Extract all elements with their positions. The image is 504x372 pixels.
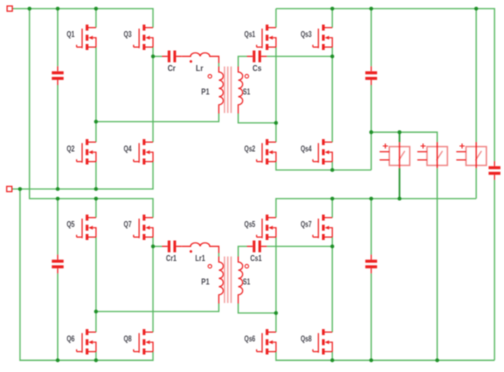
junction (20,189) (18, 187, 22, 191)
wire: Qs1 source to Qs2 drain (275, 47, 277, 142)
wire: leg A x=96 Q2 source to bottom rail (95, 162, 97, 189)
wire: module B1 upper lead (399, 132, 401, 142)
junction (153,246.4) (151, 245, 155, 249)
transistor Q6 (67, 329, 96, 354)
wire: Qs7 leg top (331, 199, 333, 218)
wire: top primary rail from J1 to Q3 drain (12, 9, 153, 28)
wire: S1 bottom to Qs1 leg mid (238, 114, 276, 123)
junction (332.3,360.3) (330, 358, 334, 362)
wire: module B1 lower lead (399, 168, 401, 199)
capacitor C1 input filter top (52, 66, 64, 85)
svg-text:Qs2: Qs2 (244, 143, 255, 153)
transistor Qs3 (301, 25, 333, 50)
junction (371.2,132.2) (369, 130, 373, 134)
capacitor Cs (247, 51, 267, 74)
wire: Qs3 source to Qs4 drain (331, 47, 333, 142)
junction (399.5,132.2) (398, 130, 402, 134)
wire: leg A bottom x=96 rail to Q5 drain (95, 199, 97, 218)
junction (332.3,198.6) (330, 197, 334, 201)
transistor Qs1 (244, 25, 276, 50)
svg-text:Cs1: Cs1 (250, 253, 262, 263)
wire: Lr1 to P1 top (218, 253, 220, 257)
svg-text:Q7: Q7 (124, 219, 132, 229)
wire: far right bus below cap (494, 180, 496, 360)
wire: leg A x=96 top to Q1 drain (95, 9, 97, 28)
junction (371.2,198.6) (369, 197, 373, 201)
wire: Lr to P1 top (218, 63, 220, 67)
wire: lower input cap branch (x=57.7) (57, 199, 59, 361)
junction (437.2,360.3) (435, 358, 439, 362)
transistor Qs6 (244, 329, 276, 354)
capacitor C2 output filter top (365, 66, 377, 85)
wire: Qs8 source to bottom rail (331, 352, 333, 361)
wire: secondary lower rail y=198.6 (276, 199, 476, 218)
capacitor Cr (162, 51, 182, 74)
capacitor C4 output filter bottom (365, 255, 377, 274)
wire: module B2 lead down to bottom rail (436, 168, 438, 360)
transformer T1 primary winding P1 (201, 67, 223, 114)
wire: S1 top to Cs (238, 56, 247, 66)
junction (476.2,8.6) (474, 7, 478, 11)
svg-text:P1: P1 (201, 87, 209, 97)
svg-text:Lr: Lr (196, 63, 204, 73)
svg-text:Cr: Cr (168, 63, 177, 73)
junction (332.3,246.4) (330, 245, 334, 249)
wire: Q4 source to negative rail and terminal J2 (12, 162, 153, 189)
svg-text:S1: S1 (243, 277, 250, 287)
transformer T1 secondary winding S1 (238, 67, 250, 114)
wire: lower output cap branch (x=371.2) (370, 199, 372, 361)
svg-text:Q3: Q3 (124, 29, 132, 39)
capacitor Cs1 (247, 241, 267, 263)
wire: leg B bottom x=153 Q7 source to Q8 drain (152, 237, 154, 332)
polarity dot S1 (245, 74, 249, 78)
junction (332.3,56.4) (330, 55, 334, 59)
wire: Qs3 leg top (331, 9, 333, 28)
svg-text:Q2: Q2 (67, 143, 75, 153)
transistor Q8 (124, 329, 153, 354)
junction (96,121.6) (94, 120, 98, 124)
junction (29.5,8.6) (28, 7, 32, 11)
wire: Qs2 source to output minus rail (276, 162, 371, 170)
wire: top bridge mid to P1 bottom (96, 114, 219, 122)
wire: leg A bottom x=96 Q5 source to Q6 drain (95, 237, 97, 332)
transformer T1 core (225, 67, 232, 114)
transistor Qs8 (301, 329, 333, 354)
wire: input cap branch upper (x=57.7) (57, 9, 59, 189)
svg-text:Qs1: Qs1 (244, 29, 255, 39)
wire: Cs1 to Qs7 leg mid (267, 245, 333, 247)
polarity dot S1 bottom (245, 264, 249, 268)
transformer T2 primary winding P1 (201, 257, 223, 304)
junction (96,311.5) (94, 310, 98, 314)
junction (96,360.3) (94, 358, 98, 362)
svg-text:Cr1: Cr1 (166, 253, 177, 263)
junction (57.7,198.6) (56, 197, 60, 201)
wire: Qs7 source to Qs8 drain (331, 237, 333, 332)
svg-text:Qs5: Qs5 (244, 219, 255, 229)
wire: Cr1 tap from leg B (153, 245, 162, 247)
input terminal J1 (7, 6, 12, 11)
capacitor Cr1 (162, 241, 182, 263)
junction (96,8.6) (94, 7, 98, 11)
svg-text:Qs8: Qs8 (301, 333, 312, 343)
junction (96,198.6) (94, 197, 98, 201)
wire: Cr tap from leg B (153, 55, 162, 57)
capacitor C5 far right filter (489, 161, 501, 180)
transistor Q5 (67, 215, 96, 240)
junction (399.5,198.6) (398, 197, 402, 201)
transformer T2 core (225, 257, 232, 304)
wire: Qs1 leg top (275, 9, 277, 28)
svg-text:Qs4: Qs4 (301, 143, 312, 153)
transistor Qs7 (301, 215, 333, 240)
wire: S1 bottom to Qs5 leg mid (238, 304, 276, 314)
svg-text:Qs6: Qs6 (244, 333, 255, 343)
inductor Lr1 (182, 243, 219, 263)
junction (57.7,8.6) (56, 7, 60, 11)
svg-text:Q8: Q8 (124, 333, 132, 343)
svg-text:Qs7: Qs7 (301, 219, 312, 229)
wire: Qs4 source to output minus rail (331, 162, 333, 170)
wire: negative bus x=20 down and bottom rail to Q8 source (20, 189, 153, 360)
polarity dot P1 (208, 75, 212, 79)
wire: output cap branch upper (x=371.2) (370, 9, 372, 170)
wire: S1 top to Cs1 (238, 246, 247, 256)
battery module B3 (456, 142, 486, 168)
svg-text:Cs: Cs (253, 63, 262, 73)
transistor Q3 (124, 25, 153, 50)
transistor Qs4 (301, 139, 333, 164)
junction (57.7,360.3) (56, 358, 60, 362)
svg-text:P1: P1 (201, 277, 209, 287)
wire: bottom bridge mid to P1 bottom (96, 304, 219, 312)
inductor Lr (182, 53, 219, 73)
wire: leg B x=153 Q3 source to Q4 drain (152, 47, 154, 142)
wire: module top bus y=132.2 (371, 132, 437, 142)
transistor Q2 (67, 139, 96, 164)
wire: Cs to Qs3 leg mid (267, 55, 333, 57)
svg-text:Lr1: Lr1 (195, 253, 205, 263)
wire: module B3 lower lead (475, 168, 477, 199)
wire: leg A bottom x=96 Q6 source to bottom rail (95, 352, 97, 361)
junction (96,189) (94, 187, 98, 191)
input terminal J2 (7, 186, 12, 191)
wire: leg A x=96 Q1 source to Q2 drain (95, 47, 97, 142)
junction (276,122.9) (274, 121, 278, 125)
svg-text:Q5: Q5 (67, 219, 75, 229)
junction (332.3,8.6) (330, 7, 334, 11)
transistor Qs2 (244, 139, 276, 164)
junction (276,313) (274, 311, 278, 315)
transistor Qs5 (244, 215, 276, 240)
junction (371.2,360.3) (369, 358, 373, 362)
svg-text:Q6: Q6 (67, 333, 75, 343)
junction (57.7,189) (56, 187, 60, 191)
transistor Q7 (124, 215, 153, 240)
junction (332.3,170) (330, 168, 334, 172)
battery module B1 (380, 142, 410, 168)
svg-text:Q1: Q1 (67, 29, 75, 39)
wire: Qs5 source to Qs6 drain (275, 237, 277, 332)
wire: left bus x=29.5 down to lower bridge rail and Q7 drain (30, 9, 154, 218)
svg-text:S1: S1 (243, 87, 250, 97)
svg-text:Q4: Q4 (124, 143, 132, 153)
junction (153,56.4) (151, 55, 155, 59)
battery module B2 (417, 142, 447, 168)
capacitor C3 input filter bottom (52, 255, 64, 274)
transistor Q1 (67, 25, 96, 50)
transformer T2 secondary winding S1 (238, 257, 250, 304)
wire: top secondary plus rail (276, 9, 495, 162)
transistor Q4 (124, 139, 153, 164)
svg-text:Qs3: Qs3 (301, 29, 312, 39)
wire: module B3 upper lead from top rail (475, 9, 477, 143)
polarity dot P1 bottom (208, 265, 212, 269)
wire: Qs6 source to bottom right rail (276, 352, 495, 361)
junction (371.2,8.6) (369, 7, 373, 11)
